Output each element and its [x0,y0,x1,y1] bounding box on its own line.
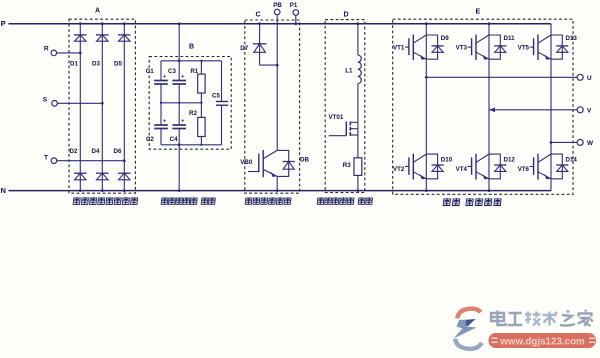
svg-text:D10: D10 [441,156,453,163]
section C box [245,20,300,193]
svg-text:N: N [0,186,5,195]
section D box [325,20,365,193]
svg-text:+: + [181,118,184,124]
svg-text:C1: C1 [146,68,154,75]
logo url box [489,333,597,348]
svg-text:B: B [189,43,194,50]
caption DC braking circuit [245,197,291,204]
transistor VT6 [551,154,562,179]
svg-text:VT4: VT4 [456,166,468,173]
wire B top bus [161,60,222,62]
capacitor C4 [172,124,186,126]
svg-text:D3: D3 [92,61,100,68]
resistor R3 [354,158,362,176]
transistor VT2 [426,154,437,179]
svg-text:A: A [95,8,100,15]
svg-text:U: U [587,75,592,82]
diode D5 [118,34,131,36]
svg-text:D1: D1 [70,61,78,68]
svg-text:+: + [163,118,166,124]
capacitor C1 [154,80,168,82]
section E box [393,19,573,194]
svg-text:C2: C2 [146,136,154,143]
svg-text:D14: D14 [566,156,578,163]
svg-text:P1: P1 [290,2,298,9]
svg-text:D2: D2 [70,148,78,155]
caption storage filter circuit [161,197,215,204]
wire D column top [357,24,359,55]
logo title dgjs [491,310,593,326]
section A box [69,19,135,193]
svg-text:VT6: VT6 [518,166,530,173]
wire B bottom bus [161,144,222,146]
wire inverter leg 3 [550,24,552,191]
svg-text:PB: PB [273,2,282,9]
logo icon [454,309,482,349]
wire B mid column [178,61,180,81]
svg-text:W: W [587,140,594,147]
transistor VT1 [426,35,437,59]
svg-text:D13: D13 [566,35,578,42]
svg-text:D: D [343,11,348,18]
svg-text:R1: R1 [190,68,198,75]
svg-text:D6: D6 [114,148,122,155]
node U terminal [577,74,583,80]
resistor R2 [198,117,205,136]
node W terminal [577,139,583,145]
svg-text:VT1: VT1 [393,45,405,52]
svg-text:C4: C4 [170,136,178,143]
svg-text:D7: D7 [240,45,248,52]
svg-text:VT3: VT3 [456,45,468,52]
section B box [149,57,231,150]
svg-text:VB0: VB0 [240,159,253,166]
node V terminal [577,107,583,113]
transistor VT5 [551,35,562,59]
svg-text:D9: D9 [441,35,449,42]
wire bridge column 2 [101,24,103,191]
svg-text:T: T [44,155,48,162]
wire L1 to VT01 [357,84,359,122]
wire PB vertical [276,15,278,151]
wire B left column [160,61,162,81]
wire W output [551,141,577,143]
svg-text:VT5: VT5 [518,45,530,52]
svg-text:S: S [43,96,48,103]
diode D2 [74,172,87,174]
capacitor C2 [154,124,168,126]
resistor R1 [198,74,205,93]
svg-text:R2: R2 [189,110,197,117]
svg-text:C5: C5 [212,93,220,100]
wire D7 branch [259,24,261,65]
svg-text:D12: D12 [504,156,516,163]
svg-text:www.dgjs123.com: www.dgjs123.com [499,337,585,348]
wire T to D5 [57,160,125,162]
transistor VT3 [489,35,500,59]
svg-text:D4: D4 [92,148,100,155]
svg-text:+: + [181,74,184,80]
diode D3 [96,34,109,36]
svg-text:VT2: VT2 [393,166,405,173]
wire VB0 emitter to N [276,176,278,190]
transistor VT01 mosfet [345,122,347,136]
svg-text:P: P [1,19,6,28]
svg-text:L1: L1 [345,68,353,75]
wire N rail [9,190,552,192]
wire V output [489,109,577,111]
wire bridge column 3 [123,24,125,191]
wire P rail [9,23,552,25]
wire R3 to N [357,175,359,190]
svg-text:R3: R3 [343,162,351,169]
wire B to N rail [178,145,180,191]
svg-text:R: R [44,45,49,52]
wire B right column [221,61,223,102]
svg-text:VT01: VT01 [329,114,344,121]
capacitor C3 [172,80,186,82]
wire D7 to PB node [260,64,278,66]
svg-text:C: C [255,11,260,18]
svg-text:E: E [475,9,480,16]
wire R1R2 column [200,61,202,74]
inductor L1 [358,55,361,84]
diode D4 [96,172,109,174]
wire VT01 to R3 [357,122,359,158]
wire U output [426,76,577,78]
wire bridge column 1 [79,24,81,191]
svg-text:V: V [587,107,592,114]
wire S to D3 [57,102,102,104]
wire R to D1 [57,52,81,54]
wire B mid bus [161,102,201,104]
wire inverter leg 1 [425,24,427,191]
transistor VB0 [277,150,289,176]
caption three-phase bridge rectifier [73,197,138,204]
wire P1 stub [295,15,297,23]
svg-text:+: + [163,74,166,80]
svg-text:C3: C3 [168,68,176,75]
caption switching power supply [317,197,372,204]
svg-text:DB: DB [300,156,309,163]
transistor VT4 [489,154,500,179]
diode D1 [74,34,87,36]
diode D6 [118,172,131,174]
diode D7 [253,43,267,45]
svg-text:D11: D11 [504,35,516,42]
wire P rail to B [178,24,180,61]
svg-text:D5: D5 [114,61,122,68]
caption inverter power circuit [443,198,501,205]
capacitor C5 [216,101,228,103]
wire inverter leg 2 [488,24,490,191]
